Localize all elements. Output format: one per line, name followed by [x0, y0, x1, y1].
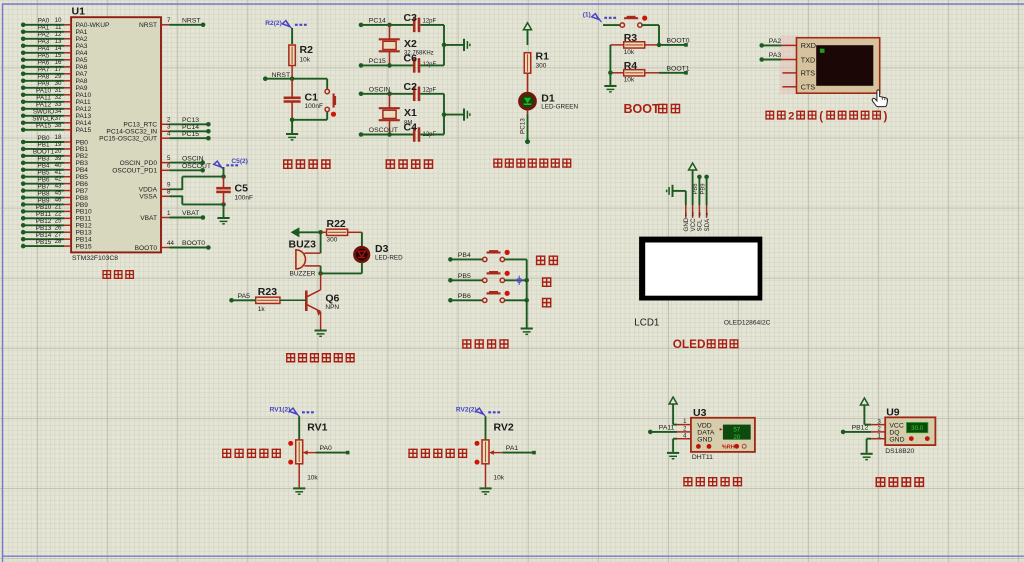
svg-text:PA10: PA10 [76, 92, 92, 99]
U1 left pin PA6 (16) wire [21, 59, 88, 71]
resistor R22 300 [321, 218, 362, 243]
OLED pin stubs GND VCC SCL SDA [683, 205, 711, 232]
svg-text:PB12: PB12 [76, 223, 92, 230]
wire power to R22 node [299, 231, 321, 233]
svg-text:DS18B20: DS18B20 [885, 448, 914, 455]
caption alarm 声光报警电路 [286, 353, 295, 363]
wire C5 probe stub [223, 167, 225, 177]
U1 left pin PA11 (32) wire [21, 94, 91, 106]
junction node C5 bottom [221, 202, 226, 207]
svg-text:RV2: RV2 [494, 421, 514, 433]
caption temperature module 测温模块 [875, 477, 885, 487]
U1 left pin SWCLK (37) wire [21, 115, 92, 127]
svg-text:32: 32 [55, 94, 62, 101]
svg-text:VDDA: VDDA [139, 187, 158, 194]
svg-text:U9: U9 [886, 406, 900, 418]
wire bottom node horizontal [321, 272, 362, 274]
svg-text:PA3: PA3 [769, 52, 782, 59]
U1 right pin PC13_RTC (2) net PC13 [123, 117, 210, 129]
svg-text:44: 44 [167, 240, 174, 247]
svg-text:PA2: PA2 [38, 32, 50, 39]
selection highlight on terminal pins [780, 35, 798, 94]
svg-text:29: 29 [55, 73, 62, 80]
svg-text:NPN: NPN [325, 304, 339, 311]
key button PB4 [483, 257, 487, 261]
svg-text:Q6: Q6 [325, 293, 339, 305]
caption crystal circuit 晶振电路 [386, 159, 396, 169]
svg-text:VBAT: VBAT [182, 210, 199, 217]
virtual terminal body [797, 38, 880, 93]
pin RTS stub [782, 72, 796, 74]
svg-text:R2: R2 [300, 44, 314, 56]
svg-text:SWCLK: SWCLK [32, 116, 55, 123]
svg-text:LED-RED: LED-RED [375, 254, 403, 261]
svg-text:R4: R4 [624, 60, 638, 72]
svg-text:PC13_RTC: PC13_RTC [123, 122, 157, 129]
resistor R23 1k [256, 286, 280, 313]
svg-text:RV1(2): RV1(2) [270, 407, 291, 414]
terminal dot PC13 [525, 139, 530, 144]
U1 left pin PB10 (21) wire [21, 204, 92, 216]
svg-text:PA15: PA15 [36, 123, 51, 130]
svg-text:300: 300 [327, 236, 338, 243]
svg-text:PA8: PA8 [38, 74, 50, 81]
wire key PB4 to rail [505, 258, 527, 260]
svg-text:30: 30 [55, 80, 62, 87]
U1 left pin PA12 (33) wire [21, 101, 92, 113]
svg-text:D3: D3 [375, 243, 389, 255]
svg-text:X1: X1 [404, 107, 417, 119]
svg-text:17: 17 [55, 66, 62, 73]
svg-text:PB6: PB6 [458, 293, 471, 300]
capacitor C2 12pF [404, 81, 437, 101]
wire key PB5 to rail [505, 279, 527, 281]
capacitor C6 12pF [404, 53, 437, 73]
svg-text:BOOT0: BOOT0 [182, 240, 205, 247]
svg-text:BOOT0: BOOT0 [135, 245, 158, 252]
svg-text:PB8: PB8 [693, 184, 699, 195]
wire power to VDD [673, 404, 691, 425]
svg-text:30.0: 30.0 [911, 425, 924, 432]
svg-text:R3: R3 [624, 32, 638, 44]
svg-text:RXD: RXD [801, 41, 816, 50]
svg-text:OLED: OLED [673, 337, 706, 351]
svg-text:38: 38 [55, 122, 62, 129]
net PB8 wire to SCL [693, 175, 702, 205]
resistor R2 10k [289, 44, 313, 79]
wire R23 to Q6 base [280, 299, 306, 301]
net OSCOUT wire [359, 127, 414, 137]
crystal X1 8M [379, 94, 417, 135]
svg-text:21: 21 [55, 204, 62, 211]
svg-text:300: 300 [536, 62, 547, 69]
resistor R1 300 [524, 51, 549, 74]
svg-text:BUZ3: BUZ3 [289, 239, 317, 251]
svg-text:PA10: PA10 [36, 88, 51, 95]
U1 left pin PB9 (46) wire [21, 197, 88, 209]
right rail keys [526, 259, 528, 327]
net PA5 wire to R23 [229, 293, 256, 303]
power arrow DHT11 VDD [669, 397, 677, 404]
net PC15 wire [359, 58, 414, 68]
wire D1 to net PC13 [520, 110, 528, 142]
junction right rail lower [442, 112, 447, 117]
svg-text:PB15: PB15 [36, 239, 52, 246]
U1 left pin PB0 (18) wire [21, 134, 88, 146]
potentiometer RV1 10k [288, 421, 327, 481]
svg-text:9: 9 [167, 182, 171, 189]
svg-text:U1: U1 [72, 6, 86, 18]
junction right rail upper [442, 43, 447, 48]
ground alarm [315, 331, 327, 338]
svg-text:C2: C2 [404, 81, 418, 93]
svg-text:PA1: PA1 [506, 445, 519, 452]
svg-text:OSCOUT_PD1: OSCOUT_PD1 [112, 168, 157, 175]
net PA1 wiper wire [502, 445, 536, 454]
key button PB6 [483, 298, 487, 302]
svg-text:U3: U3 [693, 407, 707, 419]
U1 right pin PC14-OSC32_IN (3) net PC14 [106, 124, 210, 136]
svg-text:7: 7 [167, 17, 171, 24]
wire C6 to right rail [420, 64, 444, 66]
svg-text:(: ( [819, 111, 823, 123]
U1 left pin PA9 (30) wire [21, 80, 88, 92]
U1 left pin PA3 (13) wire [21, 38, 88, 50]
svg-text:14: 14 [55, 45, 62, 52]
svg-text:PC14: PC14 [369, 18, 386, 25]
wire probe to R2 [291, 28, 293, 44]
wire GND pin to ground [867, 439, 886, 453]
resistor R4 10k [610, 60, 659, 84]
svg-text:R2(2): R2(2) [265, 20, 282, 27]
svg-text:PA13: PA13 [76, 113, 92, 120]
ground DS18B20 [861, 454, 873, 461]
svg-text:PA0: PA0 [320, 445, 333, 452]
key button PB5 [483, 278, 487, 282]
pin CTS stub [782, 86, 796, 88]
junction X1 bottom [387, 132, 392, 137]
U1 right pin NRST (7) net NRST [139, 17, 205, 29]
capacitor C4 12pF [404, 122, 437, 142]
U1 left pin PB13 (26) wire [21, 224, 92, 236]
svg-text:PB15: PB15 [76, 243, 92, 250]
svg-text:39: 39 [55, 155, 62, 162]
ground BOOT circuit [604, 86, 616, 93]
ground (rotated) OLED GND [666, 185, 673, 197]
svg-text:LCD1: LCD1 [634, 317, 659, 328]
svg-text:VBAT: VBAT [140, 215, 157, 222]
caption independent keys 独立按键 [462, 339, 471, 349]
transistor Q6 NPN [306, 273, 339, 315]
svg-text:PA1: PA1 [38, 25, 50, 32]
caption main chip 主芯片 [102, 270, 111, 279]
U1 pin VDDA (9) wire to C5 top [139, 177, 224, 194]
net PA2 wire to RXD [759, 38, 796, 48]
U1 left pin PA5 (15) wire [21, 52, 88, 64]
caption OLED display OLED显示屏 [673, 337, 739, 351]
svg-text:PB11: PB11 [36, 211, 51, 218]
caption serial window 串口2窗口（模拟手机端） [765, 110, 887, 123]
ground keys [521, 329, 533, 336]
wire RV2 bottom to ground [485, 464, 487, 488]
junction X1 top [387, 92, 392, 97]
net PB5 wire to key [448, 273, 483, 283]
net PB4 wire to key [448, 252, 483, 262]
svg-text:11: 11 [55, 24, 62, 31]
power arrow DS18B20 VCC [860, 398, 868, 405]
svg-text:PA4: PA4 [76, 50, 88, 57]
U1 left pin PA4 (14) wire [21, 45, 88, 57]
U1 left pin PA0 (10) wire [21, 17, 110, 29]
svg-text:GND: GND [889, 437, 904, 444]
wire GND pin to ground [673, 439, 691, 452]
net PA3 wire to TXD [759, 52, 796, 62]
U1 right pin VBAT (1) net VBAT [140, 210, 205, 222]
svg-text:C3: C3 [404, 12, 418, 24]
wire power to VCC [864, 405, 885, 425]
caption run indicator 程序运行指示灯 [493, 158, 502, 167]
svg-text:PB5: PB5 [458, 273, 471, 280]
svg-text:PB6: PB6 [76, 181, 89, 188]
svg-text:4: 4 [167, 131, 171, 138]
caption RV2 adjust [408, 448, 417, 458]
svg-text:STM32F103C8: STM32F103C8 [72, 255, 118, 262]
svg-text:RV2(2): RV2(2) [456, 407, 477, 414]
svg-text:PA5: PA5 [238, 293, 251, 300]
crystal X2 32.768KHz [379, 25, 434, 66]
svg-text:10k: 10k [624, 49, 635, 56]
wire to side ground lower [444, 114, 463, 116]
capacitor C3 12pF [404, 12, 437, 32]
net PA0 wiper wire [316, 445, 350, 454]
ground below C5 [217, 204, 229, 224]
svg-text:LED-GREEN: LED-GREEN [541, 103, 578, 110]
U1 left pin PB3 (39) wire [21, 155, 88, 167]
U1 left pin PB14 (27) wire [21, 231, 92, 243]
power arrow (left) alarm supply [292, 228, 299, 236]
wire RV1 bottom to ground [298, 464, 300, 488]
U1 left pin PB11 (22) wire [21, 210, 92, 222]
wire probe to RV1 [298, 416, 300, 440]
svg-text:PA9: PA9 [76, 85, 88, 92]
wire top node down to buzzer [320, 232, 322, 253]
left rail R3/R4 [608, 45, 613, 85]
net PB6 wire to key [448, 293, 483, 303]
junction rail PB5 [524, 278, 529, 283]
svg-text:SCL: SCL [697, 219, 704, 232]
junction X2 bottom [387, 63, 392, 68]
svg-text:OLED12864I2C: OLED12864I2C [724, 320, 771, 327]
U1 left pin PB7 (43) wire [21, 183, 88, 195]
svg-text:R22: R22 [327, 218, 346, 230]
ground RV2 [479, 488, 491, 495]
svg-text:NRST: NRST [182, 18, 201, 25]
capacitor C1 100nF [284, 79, 323, 120]
svg-text:PC15: PC15 [182, 131, 199, 138]
wire to side ground upper [444, 44, 463, 46]
svg-text:R23: R23 [258, 286, 277, 298]
U1 left pin PA8 (29) wire [21, 73, 88, 85]
svg-text:PA2: PA2 [76, 36, 88, 43]
svg-text:PA7: PA7 [76, 71, 88, 78]
caption BOOT circuit BOOT电路 [624, 102, 681, 116]
svg-text:PA4: PA4 [38, 46, 50, 53]
U1 left pin PB1 (19) wire [21, 141, 88, 153]
svg-text:PA6: PA6 [76, 64, 88, 71]
svg-text:%RH: %RH [722, 445, 735, 451]
svg-text:1k: 1k [258, 306, 266, 313]
svg-text:SDA: SDA [704, 218, 711, 232]
svg-text:RTS: RTS [801, 69, 815, 78]
U1 left pin PB4 (40) wire [21, 162, 88, 174]
svg-text:PA8: PA8 [76, 78, 88, 85]
U1 left pin PB8 (45) wire [21, 190, 88, 202]
svg-text:8: 8 [167, 189, 171, 196]
U1 left pin BOOT1 (20) wire [21, 148, 88, 160]
svg-text:10k: 10k [307, 475, 318, 482]
BOOT button [620, 23, 624, 27]
U1 pin VSSA (8) wire to C5 bottom [139, 189, 223, 205]
svg-text:PA0: PA0 [38, 18, 50, 25]
svg-text:R1: R1 [536, 51, 550, 63]
junction R2/C1 [290, 76, 295, 81]
svg-text:12: 12 [55, 31, 62, 38]
svg-text:12pF: 12pF [423, 18, 437, 24]
wire R1 to D1 [527, 73, 529, 92]
svg-text:PA14: PA14 [76, 120, 92, 127]
svg-text:10k: 10k [494, 475, 505, 482]
probe RV2(2) [476, 408, 502, 416]
svg-text:DQ: DQ [889, 430, 899, 437]
svg-text:PA5: PA5 [38, 53, 50, 60]
svg-text:SWDIO: SWDIO [33, 109, 54, 116]
U1 right pin OSCOUT_PD1 (6) net OSCOUT [112, 163, 211, 175]
caption minus 减 [542, 298, 552, 308]
svg-text:2: 2 [167, 117, 171, 124]
svg-text:PA12: PA12 [76, 106, 92, 113]
U1 right pin BOOT0 (44) net BOOT0 [135, 240, 211, 252]
svg-text:2: 2 [788, 110, 794, 122]
svg-text:PA0-WKUP: PA0-WKUP [76, 22, 111, 29]
U1 left pin PA1 (11) wire [21, 24, 88, 36]
wire OLED VCC pin [692, 170, 694, 205]
svg-text:PB5: PB5 [38, 170, 50, 177]
U1 right pin PC15-OSC32_OUT (4) net PC15 [99, 131, 211, 143]
svg-text:OSCOUT: OSCOUT [369, 127, 398, 134]
wire bottom node [290, 118, 327, 123]
svg-text:DHT11: DHT11 [692, 454, 713, 461]
net PC14 wire [359, 18, 414, 28]
wire probe to boot button [603, 24, 621, 26]
svg-text:PA3: PA3 [76, 43, 88, 50]
svg-text:12pF: 12pF [423, 87, 437, 93]
chip U1 STM32F103C8 [71, 6, 161, 263]
U1 right pin OSCIN_PD0 (5) net OSCIN [120, 155, 205, 167]
U1 left pin PB15 (28) wire [21, 238, 92, 250]
svg-text:PB9: PB9 [700, 184, 706, 195]
svg-text:28: 28 [55, 238, 62, 245]
svg-text:PA11: PA11 [76, 99, 91, 106]
wire R22 to D3 [361, 232, 363, 246]
svg-text:PB12: PB12 [852, 425, 869, 432]
wire OLED GND pin [674, 191, 686, 205]
svg-text:22: 22 [55, 210, 62, 217]
svg-text:PA3: PA3 [38, 39, 50, 46]
junction X2 top [387, 23, 392, 28]
svg-text:1: 1 [167, 210, 171, 217]
svg-text:PB6: PB6 [38, 176, 50, 183]
svg-text:PA1: PA1 [76, 29, 88, 36]
svg-text:57: 57 [733, 427, 740, 434]
svg-text:OSCIN_PD0: OSCIN_PD0 [120, 160, 158, 167]
svg-text:PC13: PC13 [182, 117, 199, 124]
caption humidity module 温湿度模块 [683, 477, 692, 487]
svg-text:33: 33 [55, 101, 62, 108]
svg-text:34: 34 [55, 108, 62, 115]
svg-text:100nF: 100nF [235, 195, 253, 202]
wire D3 to bottom node [361, 262, 363, 273]
mouse hand cursor [872, 90, 887, 107]
caption plus 加 [542, 277, 552, 287]
U1 left pin PA15 (38) wire [21, 122, 92, 134]
net BOOT0 wire [659, 37, 690, 46]
wire probe to RV2 [485, 416, 487, 440]
net OSCIN wire [359, 86, 414, 96]
svg-text:(1): (1) [583, 12, 591, 19]
wire key PB6 to rail [505, 299, 527, 301]
wire Q6 emitter to ground [320, 312, 322, 330]
junction node C5 top [221, 174, 226, 179]
svg-text:10k: 10k [624, 77, 635, 84]
U1 left pin PA7 (17) wire [21, 66, 88, 78]
svg-text:PA2: PA2 [769, 38, 782, 45]
net BOOT1 wire [659, 65, 690, 74]
junction bottom node [318, 271, 323, 276]
probe RV1(2) [289, 408, 315, 416]
svg-text:PB4: PB4 [76, 167, 89, 174]
power arrow above R1 [524, 23, 532, 30]
svg-text:PB11: PB11 [76, 216, 92, 223]
svg-text:20: 20 [733, 434, 740, 441]
ground (rotated) lower crystal [464, 109, 471, 121]
ground (rotated) upper crystal [464, 39, 471, 51]
svg-text:DATA: DATA [697, 429, 715, 436]
LED D1 LED-GREEN [520, 93, 579, 111]
svg-text:C5(2): C5(2) [231, 158, 248, 165]
probe R2(2) [282, 21, 308, 29]
svg-text:PB12: PB12 [36, 218, 52, 225]
wire NRST node horizontal [263, 76, 327, 81]
ground reset circuit [286, 120, 298, 141]
svg-text:PA11: PA11 [659, 425, 675, 432]
svg-text:PA15: PA15 [76, 127, 92, 134]
svg-text:10k: 10k [300, 57, 311, 64]
probe (1) [592, 14, 618, 22]
U1 left pin PB5 (41) wire [21, 169, 88, 181]
svg-text:PC15: PC15 [369, 58, 386, 65]
svg-text:PB4: PB4 [38, 163, 50, 170]
net PB12 wire to DQ [841, 425, 885, 435]
svg-text:RV1: RV1 [307, 421, 327, 433]
svg-text:PA6: PA6 [38, 60, 50, 67]
svg-text:PA9: PA9 [38, 81, 50, 88]
net PB9 wire to SDA [700, 175, 708, 205]
svg-text:100nF: 100nF [305, 103, 323, 110]
blue origin marker [515, 276, 524, 285]
LED D3 LED-RED [355, 243, 404, 262]
junction rail PB6 [524, 298, 529, 303]
svg-text:PB4: PB4 [458, 252, 471, 259]
